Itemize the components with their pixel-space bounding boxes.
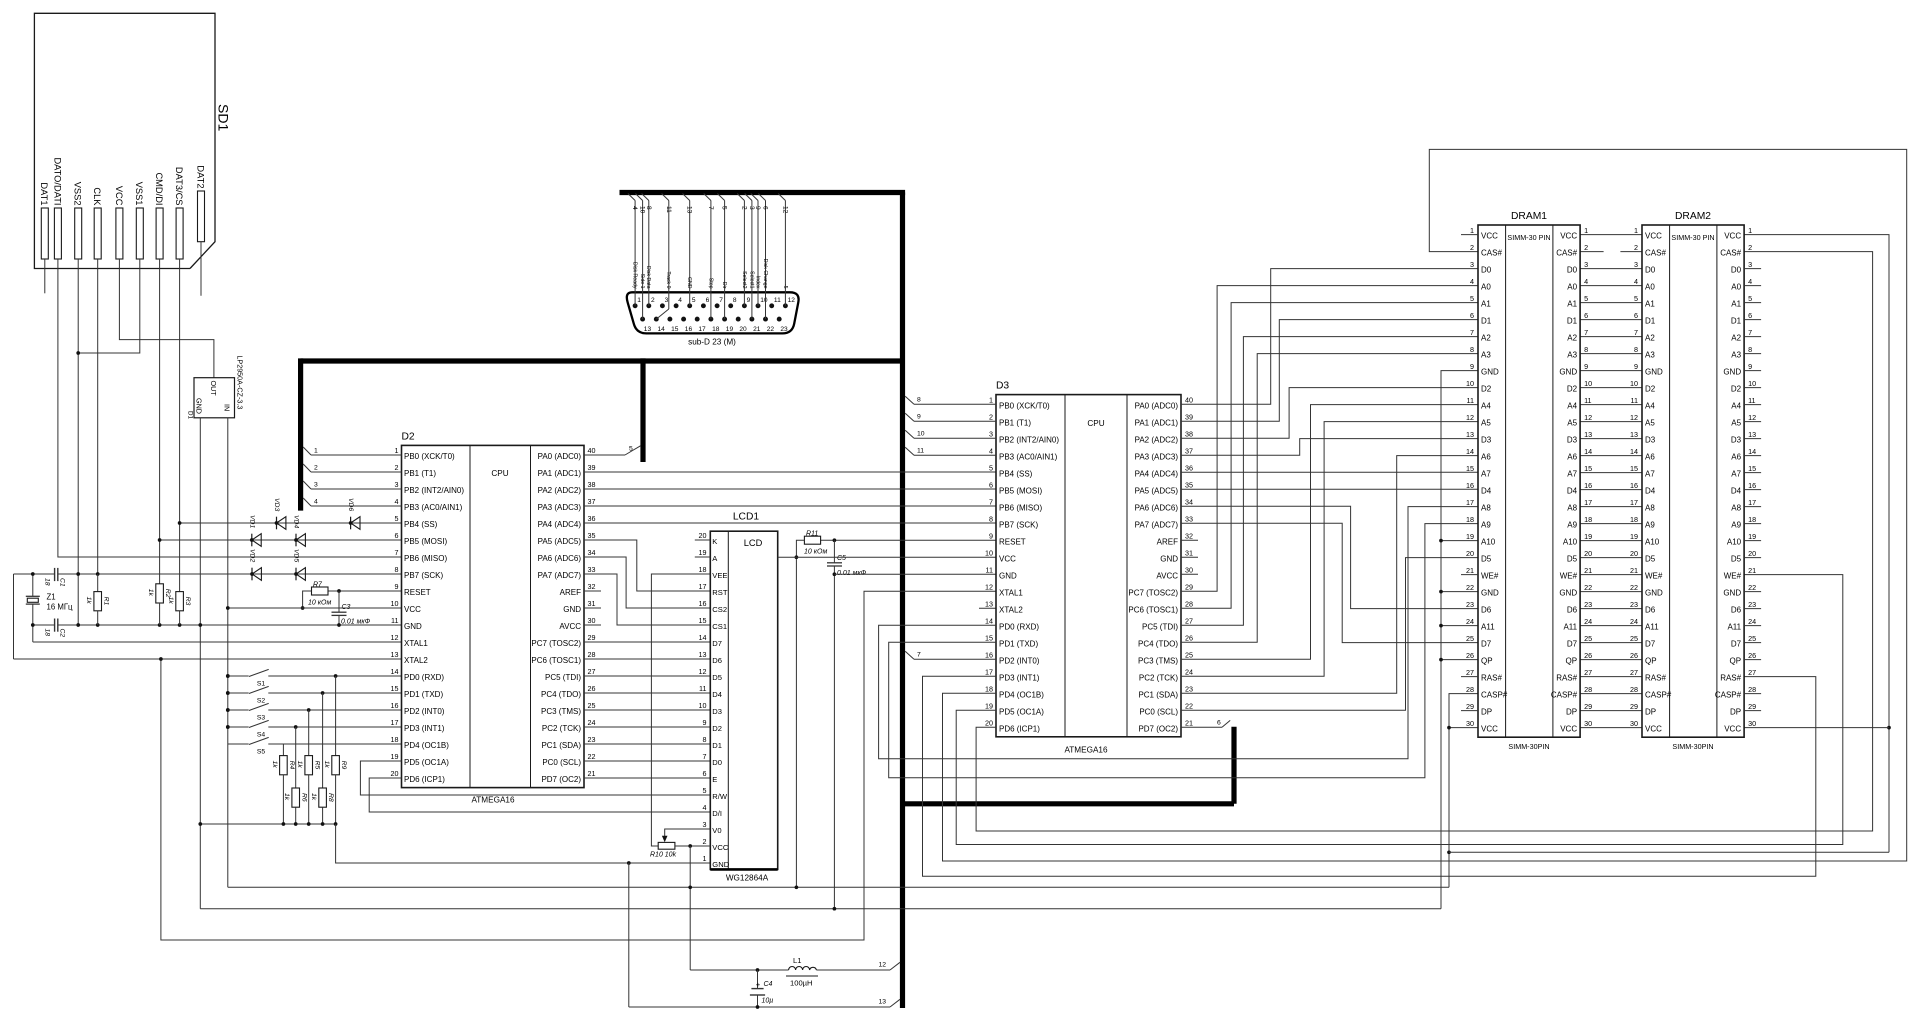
svg-text:37: 37: [588, 497, 596, 506]
svg-text:28: 28: [1630, 685, 1638, 694]
svg-text:4: 4: [678, 297, 682, 304]
svg-text:9: 9: [917, 414, 921, 421]
svg-text:9: 9: [1748, 362, 1752, 371]
svg-text:VSS1: VSS1: [134, 182, 144, 206]
svg-text:SIMM-30PIN: SIMM-30PIN: [1672, 742, 1713, 751]
svg-text:26: 26: [1748, 651, 1756, 660]
svg-text:VD1: VD1: [248, 515, 255, 528]
svg-text:40: 40: [588, 446, 596, 455]
svg-text:23: 23: [1185, 684, 1193, 693]
svg-text:29: 29: [1584, 702, 1592, 711]
svg-text:A0: A0: [1481, 283, 1491, 292]
svg-text:23: 23: [1466, 600, 1474, 609]
svg-text:A10: A10: [1481, 538, 1496, 547]
svg-text:D/I: D/I: [712, 809, 722, 818]
svg-text:S1: S1: [257, 681, 266, 688]
svg-text:10µ: 10µ: [762, 998, 774, 1005]
svg-text:24: 24: [1584, 617, 1592, 626]
svg-text:S4: S4: [257, 732, 266, 739]
svg-text:D3: D3: [996, 381, 1009, 392]
svg-text:RAS#: RAS#: [1720, 674, 1741, 683]
svg-text:19: 19: [985, 701, 993, 710]
svg-text:D6: D6: [1567, 606, 1578, 615]
svg-text:S2: S2: [257, 698, 266, 705]
svg-text:PB2 (INT2/AIN0): PB2 (INT2/AIN0): [999, 435, 1059, 444]
svg-text:24: 24: [588, 718, 596, 727]
svg-text:D3: D3: [1645, 436, 1656, 445]
svg-text:CAS#: CAS#: [1556, 249, 1577, 258]
svg-text:A9: A9: [1645, 521, 1655, 530]
svg-text:7: 7: [1584, 328, 1588, 337]
svg-text:25: 25: [588, 701, 596, 710]
svg-text:D1: D1: [1567, 317, 1578, 326]
svg-text:SIMM-30 PIN: SIMM-30 PIN: [1507, 233, 1550, 242]
svg-text:27: 27: [1748, 668, 1756, 677]
svg-text:13: 13: [878, 999, 886, 1006]
svg-text:8: 8: [1584, 345, 1588, 354]
svg-text:PA5 (ADC5): PA5 (ADC5): [1135, 486, 1179, 495]
svg-text:A3: A3: [1645, 351, 1655, 360]
svg-text:11: 11: [917, 448, 924, 455]
svg-text:29: 29: [1185, 582, 1193, 591]
svg-text:10: 10: [760, 297, 768, 304]
svg-text:3: 3: [665, 297, 669, 304]
svg-text:6: 6: [703, 769, 707, 778]
svg-text:D3: D3: [1481, 436, 1492, 445]
svg-text:PA2 (ADC2): PA2 (ADC2): [1135, 435, 1179, 444]
svg-text:VCC: VCC: [114, 186, 124, 206]
svg-text:D2: D2: [402, 431, 415, 442]
svg-text:100µH: 100µH: [790, 978, 813, 987]
svg-text:E: E: [712, 775, 717, 784]
svg-text:8: 8: [1634, 345, 1638, 354]
svg-text:PA0 (ADC0): PA0 (ADC0): [538, 452, 582, 461]
svg-text:A8: A8: [1481, 504, 1491, 513]
svg-text:PA5 (ADC5): PA5 (ADC5): [538, 537, 582, 546]
svg-text:17: 17: [698, 326, 706, 333]
svg-text:Disk Ready: Disk Ready: [632, 262, 638, 289]
svg-text:GND: GND: [404, 622, 422, 631]
svg-text:14: 14: [985, 616, 993, 625]
svg-text:18: 18: [1630, 515, 1638, 524]
svg-text:5: 5: [989, 463, 993, 472]
svg-text:4: 4: [395, 497, 399, 506]
svg-text:5: 5: [629, 446, 633, 453]
svg-text:22: 22: [588, 752, 596, 761]
svg-text:20: 20: [1466, 549, 1474, 558]
svg-text:CASP#: CASP#: [1481, 691, 1508, 700]
svg-text:11: 11: [1584, 396, 1591, 405]
svg-text:8: 8: [989, 514, 993, 523]
svg-text:19: 19: [1748, 532, 1756, 541]
svg-text:A7: A7: [1567, 470, 1577, 479]
svg-text:15: 15: [1630, 464, 1638, 473]
svg-text:1k: 1k: [85, 597, 92, 605]
svg-text:A1: A1: [1567, 300, 1577, 309]
svg-text:DP: DP: [1481, 708, 1492, 717]
svg-text:4: 4: [1634, 277, 1638, 286]
svg-text:R11: R11: [806, 530, 818, 537]
svg-text:8: 8: [1470, 345, 1474, 354]
svg-text:6: 6: [395, 531, 399, 540]
svg-text:D0: D0: [1567, 266, 1578, 275]
svg-text:D3: D3: [1567, 436, 1578, 445]
svg-text:1k: 1k: [271, 761, 278, 769]
svg-text:10: 10: [1584, 379, 1592, 388]
svg-text:1: 1: [1470, 226, 1474, 235]
svg-text:RAS#: RAS#: [1481, 674, 1502, 683]
svg-text:GND: GND: [1559, 589, 1577, 598]
svg-text:PD4 (OC1B): PD4 (OC1B): [404, 741, 449, 750]
svg-text:7: 7: [719, 297, 723, 304]
svg-text:8: 8: [1748, 345, 1752, 354]
svg-text:PD2 (INT0): PD2 (INT0): [404, 707, 445, 716]
svg-text:6: 6: [1634, 311, 1638, 320]
svg-text:DP: DP: [1566, 708, 1577, 717]
svg-text:24: 24: [1748, 617, 1756, 626]
svg-text:R8: R8: [327, 793, 334, 802]
svg-text:Select1: Select1: [748, 271, 754, 288]
svg-text:ATMEGA16: ATMEGA16: [1064, 746, 1108, 755]
svg-text:PC2 (TCK): PC2 (TCK): [1139, 673, 1178, 682]
svg-text:PB1 (T1): PB1 (T1): [999, 418, 1031, 427]
svg-text:PC3 (TMS): PC3 (TMS): [541, 707, 581, 716]
svg-text:A5: A5: [1567, 419, 1577, 428]
svg-text:D7: D7: [1567, 640, 1578, 649]
svg-text:23: 23: [588, 735, 596, 744]
svg-text:31: 31: [588, 599, 596, 608]
svg-text:19: 19: [699, 548, 707, 557]
svg-text:C2: C2: [59, 629, 66, 638]
svg-text:CAS#: CAS#: [1481, 249, 1502, 258]
svg-text:11: 11: [699, 684, 706, 693]
svg-text:32: 32: [588, 582, 596, 591]
svg-text:7: 7: [395, 548, 399, 557]
svg-text:PB5 (MOSI): PB5 (MOSI): [999, 486, 1042, 495]
svg-text:20: 20: [739, 326, 747, 333]
svg-text:D2: D2: [1731, 385, 1742, 394]
svg-text:C4: C4: [764, 981, 773, 988]
svg-text:A6: A6: [1645, 453, 1655, 462]
svg-text:10: 10: [1630, 379, 1638, 388]
svg-text:24: 24: [1466, 617, 1474, 626]
svg-text:PA7 (ADC7): PA7 (ADC7): [1135, 520, 1179, 529]
svg-text:20: 20: [1584, 549, 1592, 558]
svg-text:12: 12: [391, 633, 399, 642]
svg-text:A1: A1: [1645, 300, 1655, 309]
svg-text:sub-D 23 (M): sub-D 23 (M): [688, 338, 736, 347]
svg-text:D3: D3: [712, 707, 722, 716]
svg-text:6: 6: [706, 297, 710, 304]
svg-text:25: 25: [1584, 634, 1592, 643]
svg-text:1k: 1k: [296, 761, 303, 769]
svg-text:14: 14: [1466, 447, 1474, 456]
svg-text:13: 13: [644, 326, 652, 333]
svg-text:18: 18: [44, 578, 51, 586]
svg-text:5: 5: [395, 514, 399, 523]
svg-text:WE#: WE#: [1724, 572, 1742, 581]
svg-text:13: 13: [985, 599, 993, 608]
svg-text:VCC: VCC: [1481, 725, 1498, 734]
svg-text:D2: D2: [712, 724, 722, 733]
svg-text:PA3 (ADC3): PA3 (ADC3): [538, 503, 582, 512]
svg-text:LP2950A-CZ-3.3: LP2950A-CZ-3.3: [236, 355, 245, 409]
svg-text:XTAL1: XTAL1: [404, 639, 428, 648]
svg-text:9: 9: [754, 206, 761, 210]
svg-text:GND: GND: [999, 571, 1017, 580]
svg-text:D4: D4: [712, 690, 722, 699]
svg-text:AREF: AREF: [560, 588, 581, 597]
svg-text:QP: QP: [1481, 657, 1493, 666]
svg-text:22: 22: [1748, 583, 1756, 592]
svg-text:27: 27: [1185, 616, 1193, 625]
svg-text:36: 36: [1185, 463, 1193, 472]
svg-text:8: 8: [703, 735, 707, 744]
svg-text:D1: D1: [712, 741, 722, 750]
svg-text:4: 4: [703, 803, 707, 812]
svg-text:20: 20: [699, 531, 707, 540]
svg-text:5: 5: [721, 206, 728, 210]
svg-text:D2: D2: [1481, 385, 1492, 394]
svg-text:3: 3: [989, 429, 993, 438]
svg-text:QP: QP: [1566, 657, 1578, 666]
svg-text:Index: Index: [754, 276, 760, 289]
svg-text:8: 8: [917, 397, 921, 404]
svg-text:2: 2: [1634, 243, 1638, 252]
svg-text:CASP#: CASP#: [1551, 691, 1578, 700]
svg-text:9: 9: [703, 718, 707, 727]
svg-text:10 кОм: 10 кОм: [804, 548, 827, 555]
svg-text:9: 9: [1634, 362, 1638, 371]
svg-text:PD5 (OC1A): PD5 (OC1A): [999, 707, 1044, 716]
svg-text:2: 2: [314, 465, 318, 472]
svg-text:A6: A6: [1567, 453, 1577, 462]
svg-text:D7: D7: [1645, 640, 1656, 649]
svg-text:PB6 (MISO): PB6 (MISO): [404, 554, 447, 563]
svg-text:7: 7: [703, 752, 707, 761]
svg-text:CMD/DI: CMD/DI: [154, 172, 164, 205]
svg-text:PD6 (ICP1): PD6 (ICP1): [999, 724, 1040, 733]
svg-text:18: 18: [1466, 515, 1474, 524]
svg-text:6: 6: [1584, 311, 1588, 320]
svg-text:29: 29: [588, 633, 596, 642]
svg-text:28: 28: [1185, 599, 1193, 608]
svg-text:GND: GND: [1645, 589, 1663, 598]
svg-text:9: 9: [1470, 362, 1474, 371]
svg-text:XTAL2: XTAL2: [999, 605, 1023, 614]
svg-text:D5: D5: [1567, 555, 1578, 564]
svg-text:20: 20: [1748, 549, 1756, 558]
svg-text:DATO/DATI: DATO/DATI: [52, 157, 62, 205]
svg-text:SD1: SD1: [216, 104, 232, 131]
svg-text:A4: A4: [1481, 402, 1491, 411]
svg-text:35: 35: [1185, 480, 1193, 489]
svg-text:DRAM1: DRAM1: [1511, 211, 1547, 222]
svg-text:11: 11: [1631, 396, 1638, 405]
svg-text:PA1 (ADC1): PA1 (ADC1): [1135, 418, 1179, 427]
svg-text:PC3 (TMS): PC3 (TMS): [1138, 656, 1178, 665]
svg-text:PD0 (RXD): PD0 (RXD): [404, 673, 444, 682]
svg-text:A11: A11: [1481, 623, 1495, 632]
svg-text:12: 12: [985, 582, 993, 591]
svg-text:1: 1: [703, 854, 707, 863]
svg-text:PB1 (T1): PB1 (T1): [404, 469, 436, 478]
svg-text:19: 19: [1630, 532, 1638, 541]
svg-text:6: 6: [762, 206, 769, 210]
svg-text:29: 29: [1630, 702, 1638, 711]
svg-text:30: 30: [1748, 719, 1756, 728]
svg-text:CS1: CS1: [712, 622, 727, 631]
svg-text:VCC: VCC: [404, 605, 421, 614]
svg-text:1: 1: [989, 395, 993, 404]
svg-text:WE#: WE#: [1481, 572, 1499, 581]
svg-text:19: 19: [1466, 532, 1474, 541]
svg-text:VD2: VD2: [249, 549, 256, 562]
svg-text:16: 16: [391, 701, 399, 710]
svg-text:5: 5: [692, 297, 696, 304]
svg-text:A5: A5: [1645, 419, 1655, 428]
svg-text:26: 26: [588, 684, 596, 693]
svg-text:R/W: R/W: [712, 792, 728, 801]
svg-text:CAS#: CAS#: [1645, 249, 1666, 258]
svg-text:VCC: VCC: [1481, 232, 1498, 241]
svg-text:-5: -5: [782, 284, 788, 289]
svg-text:D4: D4: [1481, 487, 1492, 496]
svg-text:10: 10: [699, 701, 707, 710]
svg-text:18: 18: [391, 735, 399, 744]
svg-text:22: 22: [1630, 583, 1638, 592]
svg-text:16: 16: [1466, 481, 1474, 490]
svg-text:12: 12: [1748, 413, 1756, 422]
svg-text:GND: GND: [1160, 554, 1178, 563]
svg-text:6: 6: [989, 480, 993, 489]
svg-text:XTAL1: XTAL1: [999, 588, 1023, 597]
svg-text:S5: S5: [257, 749, 266, 756]
svg-text:28: 28: [1466, 685, 1474, 694]
svg-text:GND: GND: [1723, 368, 1741, 377]
svg-text:27: 27: [588, 667, 596, 676]
svg-text:15: 15: [391, 684, 399, 693]
svg-text:4: 4: [631, 206, 638, 210]
svg-text:A8: A8: [1567, 504, 1577, 513]
svg-text:3: 3: [703, 820, 707, 829]
svg-text:21: 21: [588, 769, 596, 778]
svg-text:D3: D3: [1731, 436, 1742, 445]
svg-text:9: 9: [395, 582, 399, 591]
svg-text:17: 17: [1584, 498, 1592, 507]
svg-text:A9: A9: [1731, 521, 1741, 530]
svg-text:3: 3: [748, 206, 755, 210]
svg-text:VCC: VCC: [712, 843, 729, 852]
svg-text:15: 15: [699, 616, 707, 625]
svg-text:D4: D4: [1731, 487, 1742, 496]
svg-text:A7: A7: [1645, 470, 1655, 479]
svg-text:36: 36: [588, 514, 596, 523]
svg-text:9: 9: [747, 297, 751, 304]
svg-text:15: 15: [985, 633, 993, 642]
svg-text:4: 4: [1748, 277, 1752, 286]
svg-text:RESET: RESET: [404, 588, 431, 597]
svg-text:VCC: VCC: [1645, 232, 1662, 241]
svg-text:30: 30: [1466, 719, 1474, 728]
svg-text:3: 3: [314, 482, 318, 489]
svg-text:10: 10: [917, 431, 925, 438]
svg-text:D0: D0: [1645, 266, 1656, 275]
svg-text:S3: S3: [257, 715, 266, 722]
svg-text:CASP#: CASP#: [1715, 691, 1742, 700]
svg-text:VCC: VCC: [1645, 725, 1662, 734]
svg-text:33: 33: [1185, 514, 1193, 523]
svg-text:1: 1: [395, 446, 399, 455]
svg-text:D6: D6: [712, 656, 722, 665]
svg-text:14: 14: [1630, 447, 1638, 456]
svg-text:PC6 (TOSC1): PC6 (TOSC1): [531, 656, 581, 665]
svg-text:PA6 (ADC6): PA6 (ADC6): [538, 554, 582, 563]
svg-text:PB0 (XCK/T0): PB0 (XCK/T0): [404, 452, 455, 461]
svg-text:PD1 (TXD): PD1 (TXD): [404, 690, 443, 699]
svg-text:A0: A0: [1731, 283, 1741, 292]
svg-text:A2: A2: [1481, 334, 1491, 343]
svg-text:39: 39: [1185, 412, 1193, 421]
svg-text:30: 30: [588, 616, 596, 625]
svg-text:PD0 (RXD): PD0 (RXD): [999, 622, 1039, 631]
svg-text:PB7 (SCK): PB7 (SCK): [404, 571, 443, 580]
svg-text:A7: A7: [1731, 470, 1741, 479]
svg-text:16: 16: [699, 599, 707, 608]
svg-text:1: 1: [1634, 226, 1638, 235]
svg-text:15: 15: [1466, 464, 1474, 473]
svg-text:Disk Change: Disk Change: [762, 259, 768, 289]
svg-text:10 кОм: 10 кОм: [308, 600, 331, 607]
svg-text:LCD: LCD: [744, 538, 763, 548]
svg-text:2: 2: [703, 837, 707, 846]
svg-text:A5: A5: [1481, 419, 1491, 428]
svg-text:GND: GND: [1481, 368, 1499, 377]
svg-text:ATMEGA16: ATMEGA16: [471, 796, 515, 805]
svg-text:GND: GND: [1723, 589, 1741, 598]
svg-text:GND: GND: [195, 398, 204, 414]
svg-text:PD1 (TXD): PD1 (TXD): [999, 639, 1038, 648]
svg-text:A3: A3: [1481, 351, 1491, 360]
svg-text:CAS#: CAS#: [1720, 249, 1741, 258]
svg-text:CLK: CLK: [92, 187, 102, 206]
svg-text:21: 21: [1748, 566, 1756, 575]
svg-text:A2: A2: [1567, 334, 1577, 343]
svg-text:30: 30: [1630, 719, 1638, 728]
svg-text:C5: C5: [837, 555, 846, 562]
svg-text:11: 11: [665, 206, 672, 213]
svg-text:DRAM2: DRAM2: [1675, 211, 1711, 222]
svg-text:10: 10: [391, 599, 399, 608]
svg-text:23: 23: [780, 326, 788, 333]
svg-text:A8: A8: [1731, 504, 1741, 513]
svg-text:PC5 (TDI): PC5 (TDI): [1142, 622, 1178, 631]
svg-text:9: 9: [989, 531, 993, 540]
svg-text:40: 40: [1185, 395, 1193, 404]
svg-text:28: 28: [588, 650, 596, 659]
svg-text:Z1: Z1: [47, 593, 56, 602]
svg-text:PC6 (TOSC1): PC6 (TOSC1): [1128, 605, 1178, 614]
svg-text:D7: D7: [712, 639, 722, 648]
svg-text:PD4 (OC1B): PD4 (OC1B): [999, 690, 1044, 699]
svg-text:A2: A2: [1645, 334, 1655, 343]
svg-text:12: 12: [781, 206, 788, 214]
svg-text:A9: A9: [1481, 521, 1491, 530]
svg-text:16: 16: [1584, 481, 1592, 490]
svg-text:R9: R9: [340, 761, 347, 770]
svg-text:VCC: VCC: [1560, 232, 1577, 241]
svg-text:14: 14: [658, 326, 666, 333]
